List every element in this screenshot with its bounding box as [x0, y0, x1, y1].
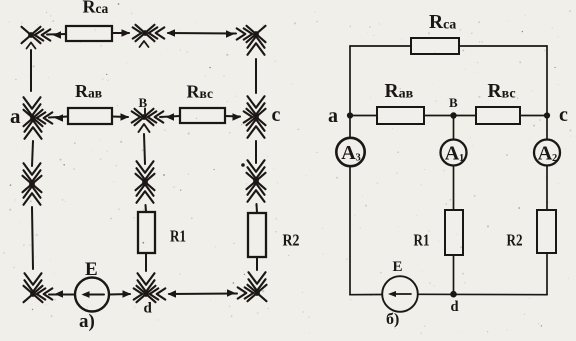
svg-text:d: d: [144, 301, 153, 317]
svg-text:A: A: [538, 143, 553, 165]
svg-text:E: E: [85, 259, 98, 280]
svg-text:E: E: [393, 259, 403, 275]
svg-text:a: a: [10, 104, 21, 128]
svg-text:1: 1: [459, 153, 464, 164]
svg-text:Rca: Rca: [83, 0, 109, 17]
svg-text:R1: R1: [414, 231, 430, 250]
svg-text:R1: R1: [170, 227, 186, 246]
svg-text:a): a): [79, 311, 95, 332]
svg-text:A: A: [445, 143, 460, 165]
svg-text:R2: R2: [283, 231, 300, 250]
svg-text:d: d: [451, 299, 459, 315]
svg-text:В: В: [449, 95, 458, 110]
svg-text:c: c: [559, 104, 568, 126]
svg-text:a: a: [328, 105, 338, 127]
svg-text:3: 3: [356, 153, 361, 164]
svg-text:c: c: [272, 104, 281, 126]
svg-text:R2: R2: [507, 231, 523, 250]
svg-text:В: В: [139, 95, 148, 110]
svg-text:2: 2: [552, 153, 557, 164]
svg-text:A: A: [341, 142, 356, 164]
svg-text:б): б): [386, 311, 399, 328]
